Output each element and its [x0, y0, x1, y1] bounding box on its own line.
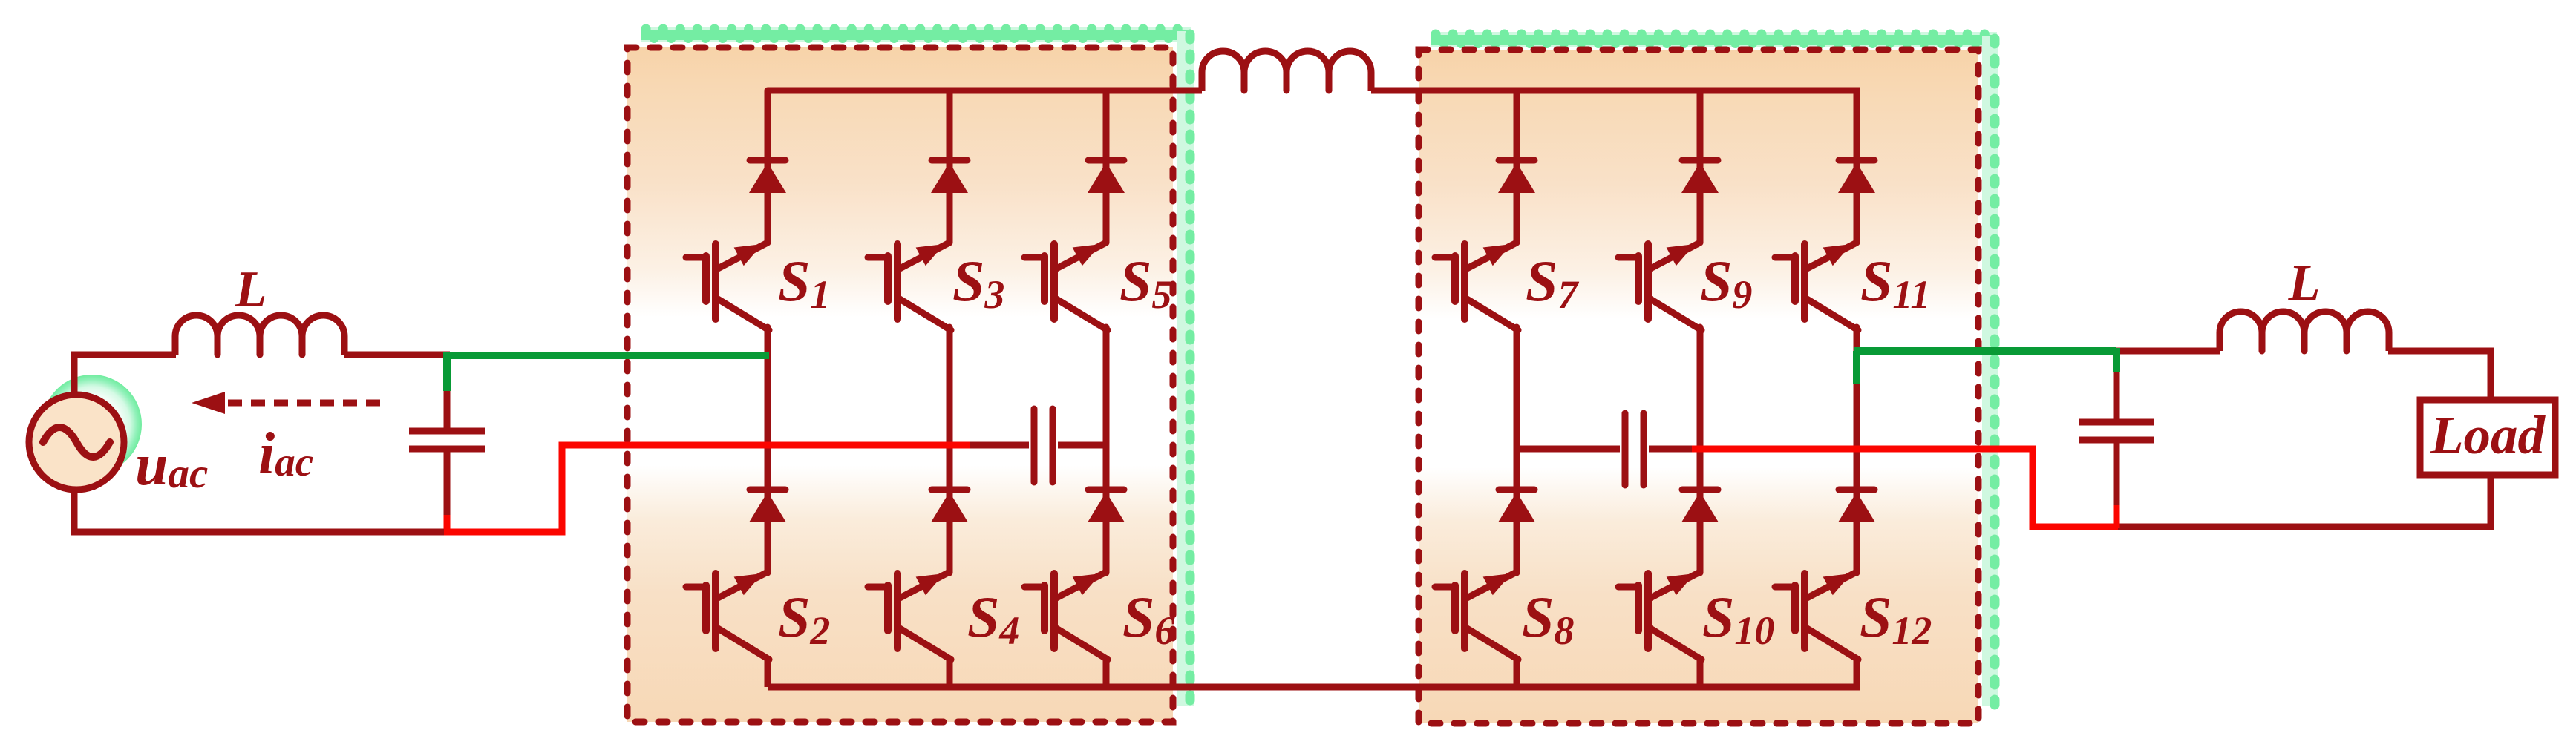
svg-text:Load: Load — [2430, 405, 2546, 465]
svg-text:uac: uac — [135, 433, 208, 498]
svg-text:L: L — [2288, 254, 2321, 312]
svg-text:L: L — [235, 261, 267, 318]
svg-text:iac: iac — [258, 421, 313, 487]
